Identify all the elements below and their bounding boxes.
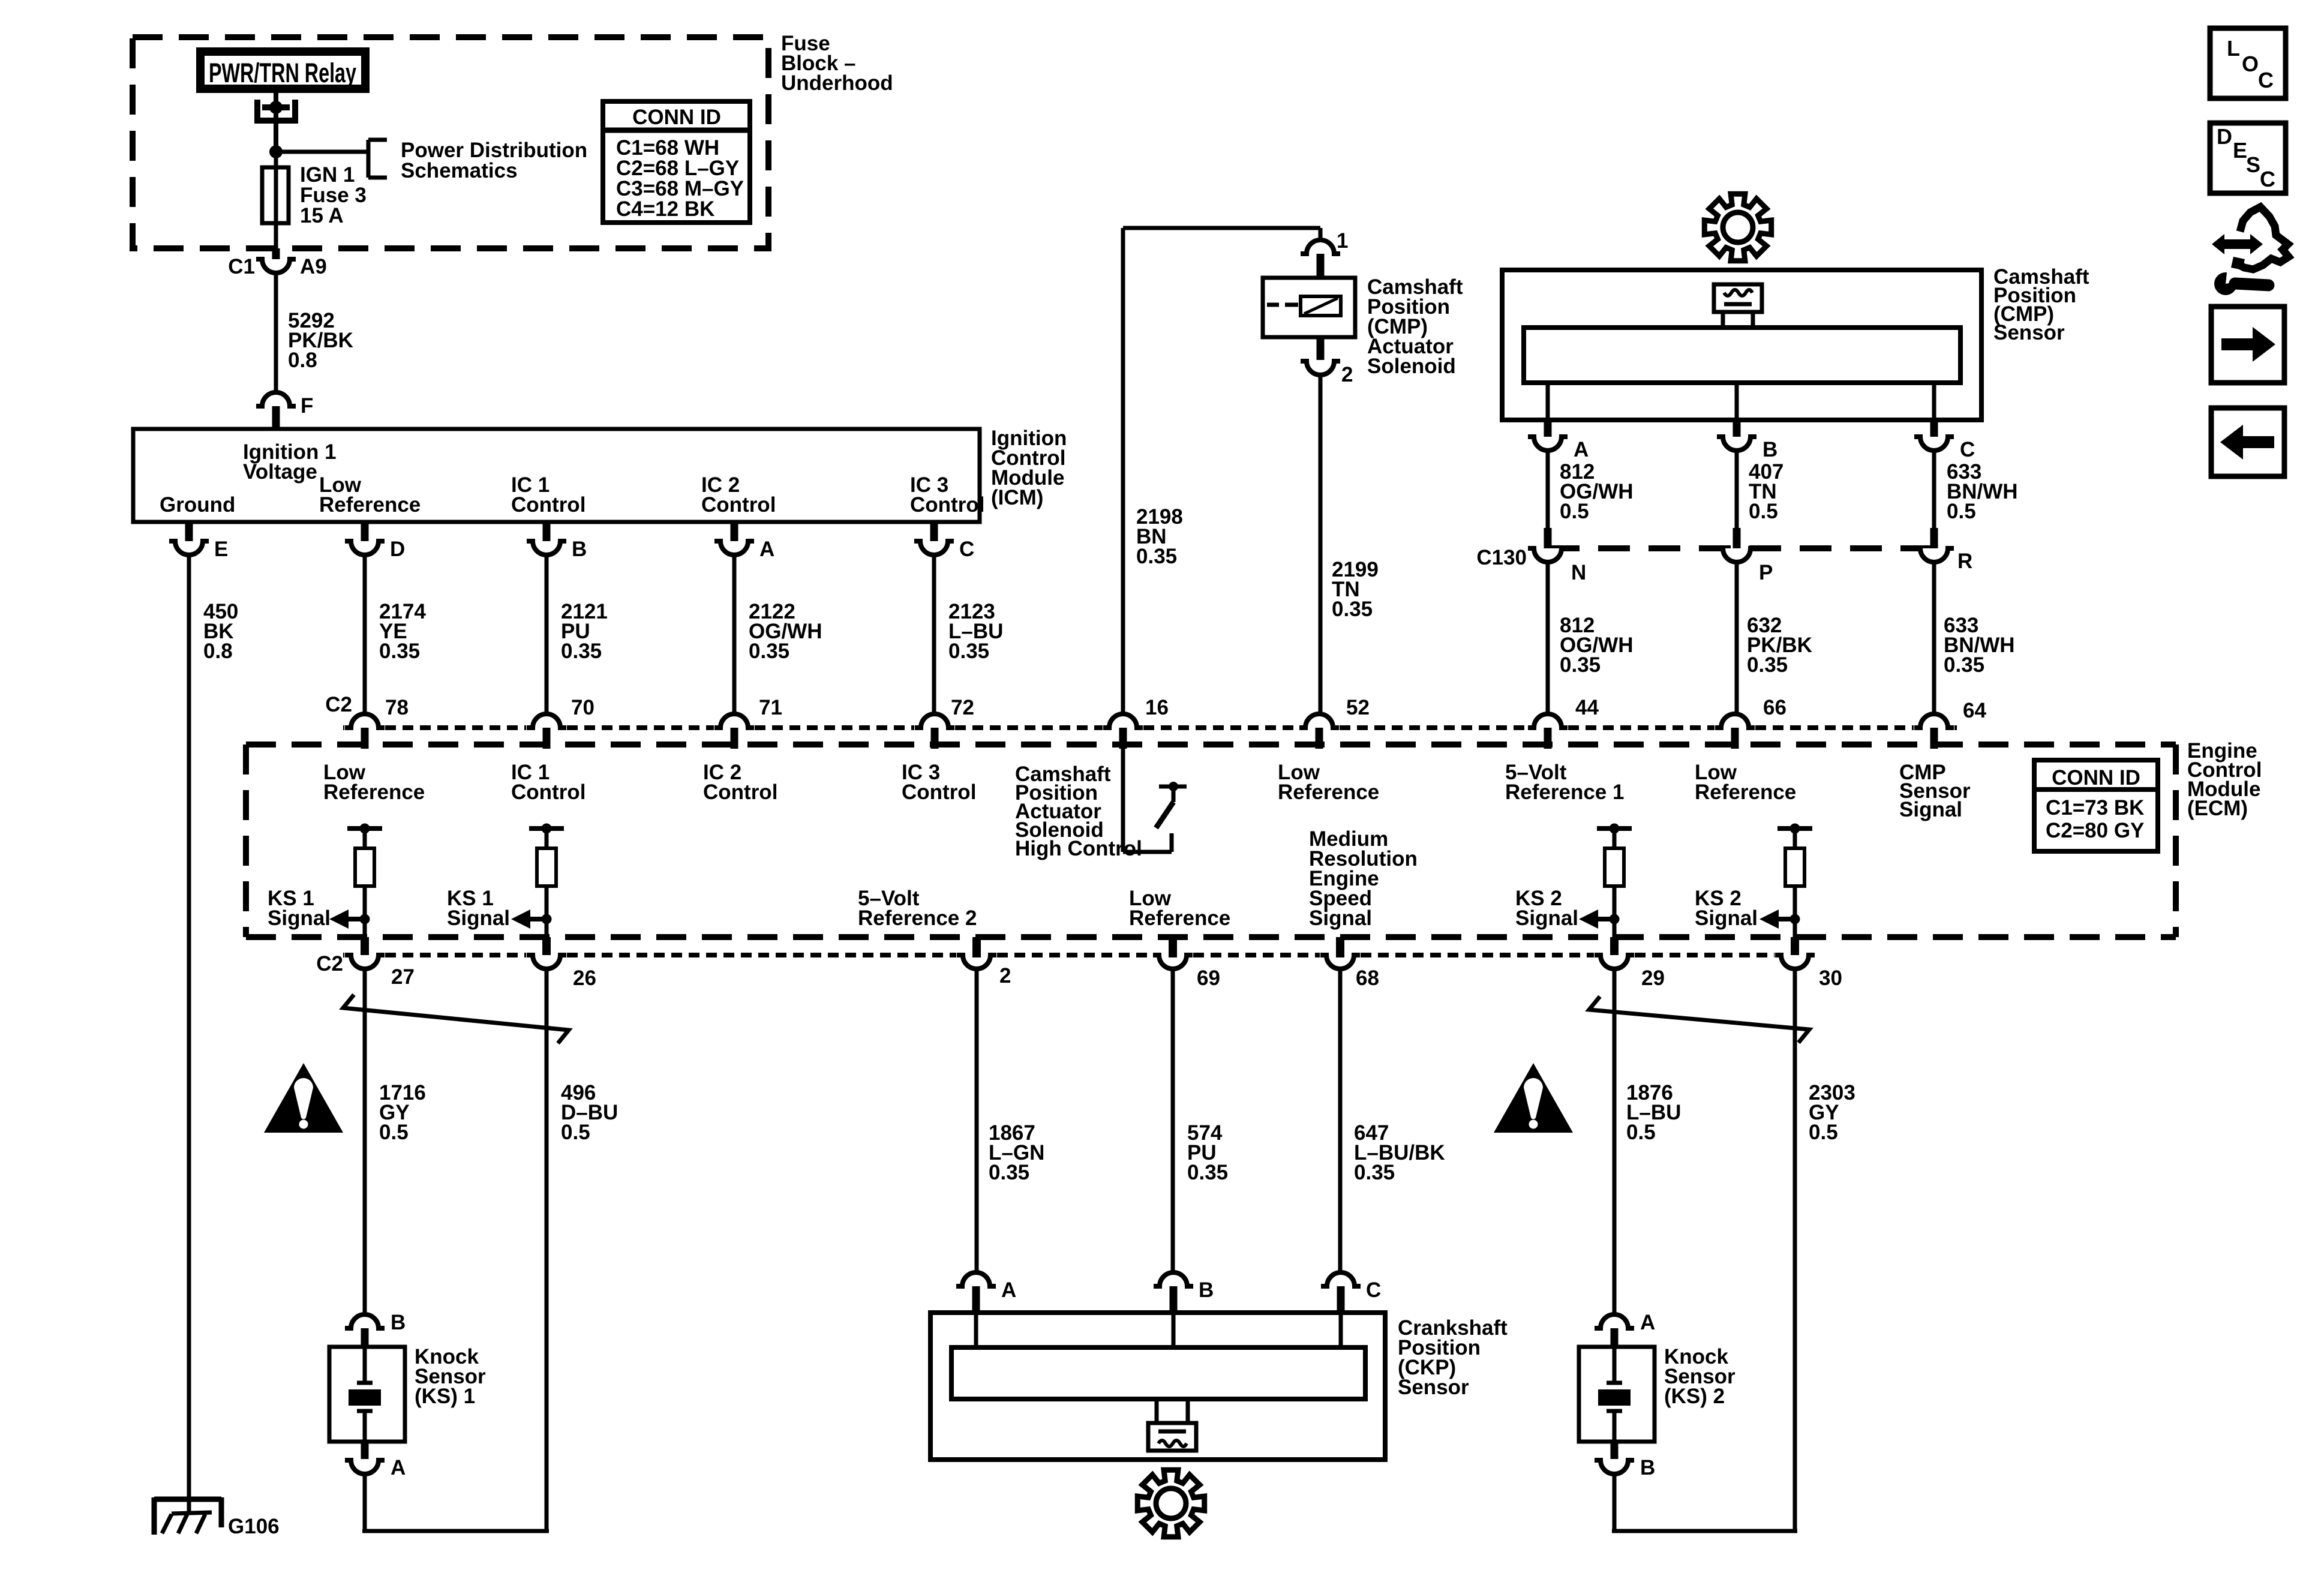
svg-text:N: N (1571, 561, 1586, 584)
svg-text:(ECM): (ECM) (2187, 797, 2248, 820)
svg-text:C1: C1 (228, 255, 255, 278)
svg-text:C130: C130 (1476, 546, 1527, 569)
svg-text:0.35: 0.35 (749, 640, 789, 663)
svg-text:Signal: Signal (1515, 906, 1578, 930)
svg-text:P: P (1759, 561, 1773, 584)
svg-text:B: B (1640, 1456, 1655, 1479)
svg-text:G106: G106 (228, 1515, 280, 1538)
svg-text:72: 72 (951, 696, 974, 719)
svg-text:Signal: Signal (447, 906, 510, 930)
svg-text:C4=12 BK: C4=12 BK (616, 197, 714, 221)
svg-text:C2: C2 (316, 952, 343, 975)
svg-text:E: E (2233, 138, 2247, 163)
svg-text:A9: A9 (300, 255, 327, 278)
svg-text:C: C (2258, 68, 2274, 92)
svg-text:44: 44 (1575, 696, 1599, 719)
svg-text:0.35: 0.35 (1560, 653, 1601, 677)
svg-text:PWR/TRN Relay: PWR/TRN Relay (209, 58, 356, 88)
svg-text:Signal: Signal (1899, 798, 1962, 821)
svg-text:Control: Control (511, 781, 585, 804)
svg-text:C1=73 BK: C1=73 BK (2046, 796, 2144, 819)
svg-text:0.5: 0.5 (379, 1121, 409, 1144)
svg-text:Reference: Reference (1278, 781, 1379, 804)
svg-text:Signal: Signal (1695, 906, 1758, 930)
svg-text:A: A (391, 1456, 406, 1479)
svg-text:Reference: Reference (323, 781, 425, 804)
svg-text:0.35: 0.35 (1354, 1161, 1395, 1184)
svg-text:0.35: 0.35 (1747, 653, 1788, 677)
svg-text:1: 1 (1337, 229, 1348, 253)
svg-text:2: 2 (1341, 363, 1353, 386)
svg-text:0.5: 0.5 (1626, 1121, 1656, 1144)
svg-text:29: 29 (1641, 966, 1665, 990)
svg-text:C: C (2260, 167, 2275, 191)
svg-text:52: 52 (1346, 696, 1370, 719)
svg-text:15 A: 15 A (300, 204, 344, 227)
svg-text:Control: Control (703, 781, 777, 804)
svg-text:16: 16 (1145, 696, 1169, 719)
svg-text:B: B (391, 1311, 406, 1334)
svg-text:Solenoid: Solenoid (1367, 355, 1456, 378)
svg-text:B: B (1762, 438, 1777, 461)
svg-text:Reference 2: Reference 2 (858, 906, 977, 930)
svg-text:Reference: Reference (1129, 906, 1230, 930)
svg-text:A: A (1001, 1278, 1016, 1302)
svg-text:Reference: Reference (319, 493, 421, 517)
svg-text:Control: Control (902, 781, 976, 804)
svg-text:0.5: 0.5 (1809, 1121, 1838, 1144)
svg-text:0.35: 0.35 (1187, 1161, 1228, 1184)
svg-text:0.8: 0.8 (288, 349, 317, 372)
svg-text:Signal: Signal (1309, 906, 1372, 930)
svg-text:Reference: Reference (1695, 781, 1796, 804)
svg-text:E: E (214, 538, 228, 561)
svg-text:C: C (1960, 438, 1975, 461)
svg-text:Control: Control (910, 493, 984, 517)
svg-text:CONN ID: CONN ID (2052, 766, 2140, 789)
svg-text:0.35: 0.35 (561, 640, 602, 663)
svg-text:Sensor: Sensor (1993, 321, 2065, 344)
svg-text:2: 2 (999, 964, 1011, 987)
svg-text:C: C (959, 538, 974, 561)
svg-text:Underhood: Underhood (781, 71, 893, 95)
svg-text:Reference 1: Reference 1 (1505, 781, 1624, 804)
svg-text:(KS) 2: (KS) 2 (1664, 1385, 1725, 1408)
svg-text:0.35: 0.35 (379, 640, 420, 663)
svg-text:B: B (1199, 1278, 1214, 1302)
svg-text:69: 69 (1197, 966, 1220, 990)
svg-text:0.35: 0.35 (1944, 653, 1984, 677)
svg-text:Sensor: Sensor (1398, 1376, 1469, 1399)
svg-text:D: D (2217, 124, 2232, 149)
svg-text:L: L (2227, 36, 2240, 61)
svg-text:Schematics: Schematics (401, 159, 518, 182)
svg-text:64: 64 (1963, 699, 1986, 722)
svg-text:27: 27 (391, 965, 415, 989)
svg-text:30: 30 (1819, 966, 1842, 990)
svg-text:66: 66 (1763, 696, 1786, 719)
svg-text:R: R (1957, 550, 1972, 573)
svg-text:0.5: 0.5 (1947, 500, 1976, 523)
svg-text:Signal: Signal (268, 906, 331, 930)
svg-text:C2=80 GY: C2=80 GY (2046, 819, 2144, 842)
svg-text:O: O (2242, 52, 2259, 76)
svg-text:Control: Control (511, 493, 585, 517)
svg-text:0.35: 0.35 (989, 1161, 1029, 1184)
svg-text:Ground: Ground (160, 493, 235, 517)
svg-text:Voltage: Voltage (243, 460, 317, 484)
svg-text:Control: Control (701, 493, 776, 517)
svg-text:D: D (390, 538, 405, 561)
svg-text:B: B (572, 538, 587, 561)
svg-text:C2: C2 (325, 693, 352, 716)
svg-text:0.35: 0.35 (948, 640, 989, 663)
svg-text:A: A (759, 538, 774, 561)
svg-text:70: 70 (571, 696, 594, 719)
svg-text:0.5: 0.5 (561, 1121, 590, 1144)
svg-text:(KS) 1: (KS) 1 (415, 1385, 475, 1408)
svg-text:0.5: 0.5 (1749, 500, 1778, 523)
svg-text:0.5: 0.5 (1560, 500, 1589, 523)
svg-text:71: 71 (759, 696, 782, 719)
svg-text:C: C (1366, 1278, 1381, 1302)
svg-text:0.35: 0.35 (1136, 545, 1177, 568)
svg-text:CONN ID: CONN ID (632, 106, 721, 129)
svg-text:0.8: 0.8 (203, 640, 233, 663)
svg-text:26: 26 (573, 966, 596, 990)
svg-text:0.35: 0.35 (1332, 598, 1373, 621)
svg-text:A: A (1574, 438, 1589, 461)
svg-text:(ICM): (ICM) (991, 486, 1043, 509)
svg-text:S: S (2246, 152, 2260, 177)
svg-text:68: 68 (1356, 966, 1379, 990)
svg-text:78: 78 (385, 696, 409, 719)
svg-text:F: F (301, 394, 313, 418)
svg-text:A: A (1640, 1311, 1655, 1334)
